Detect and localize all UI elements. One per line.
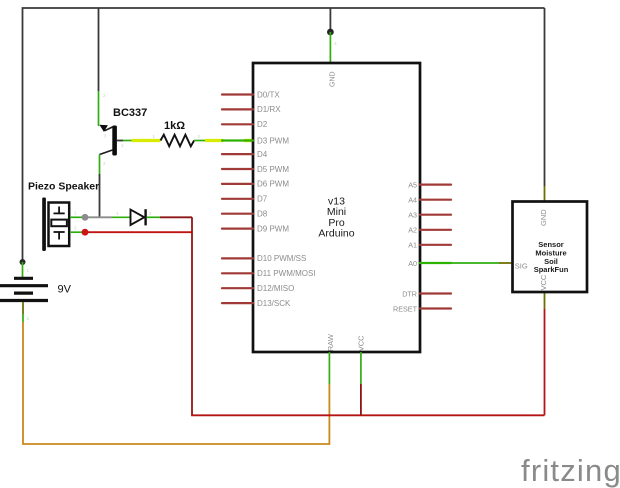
junction dot piezo pin2	[82, 229, 89, 236]
svg-text:D2: D2	[257, 120, 268, 129]
piezo speaker LS1	[42, 198, 69, 252]
pin stub Arduino VCC	[360, 352, 362, 384]
svg-text:DTR: DTR	[402, 289, 417, 298]
pin stub piezo pin2	[70, 231, 83, 233]
pin A2	[420, 229, 451, 231]
pin D9	[222, 228, 253, 230]
svg-text:D5 PWM: D5 PWM	[257, 165, 289, 174]
pin A1	[420, 244, 451, 246]
pin D11	[222, 272, 253, 274]
wire red bottom horizontal VCC net	[191, 414, 544, 416]
wire red piezo pin2	[85, 231, 192, 233]
pin D10	[222, 257, 253, 259]
wire sensor GND drop from rail	[544, 8, 546, 186]
svg-text:Piezo Speaker: Piezo Speaker	[28, 181, 99, 193]
pin DTR	[420, 292, 451, 294]
wire transistor collector down to piezo node	[99, 155, 101, 175]
pin A5	[420, 184, 451, 186]
Arduino right pins	[420, 185, 451, 309]
svg-text:RESET: RESET	[393, 304, 418, 313]
speaker cone bar	[42, 198, 46, 252]
svg-text:A1: A1	[408, 241, 417, 250]
svg-text:Arduino: Arduino	[318, 228, 354, 240]
svg-text:VCC: VCC	[539, 274, 548, 290]
pin stub battery plus	[22, 262, 24, 277]
pin D5	[222, 168, 253, 170]
pin stub piezo pin1	[70, 216, 83, 218]
svg-text:D10 PWM/SS: D10 PWM/SS	[257, 254, 306, 263]
svg-text:BC337: BC337	[113, 107, 147, 119]
svg-text:GND: GND	[539, 209, 548, 226]
bottom electrode	[54, 231, 65, 233]
wire green to diode anode	[112, 216, 131, 218]
pin D8	[222, 213, 253, 215]
svg-text:RAW: RAW	[326, 333, 335, 351]
svg-text:fritzing: fritzing	[521, 453, 620, 488]
Arduino title text	[318, 196, 354, 240]
wire red up to sensor VCC	[544, 309, 546, 415]
resistor R1 1k	[161, 135, 195, 147]
wire diode cathode	[147, 216, 161, 218]
wire base to resistor	[117, 140, 123, 142]
pin A3	[420, 214, 451, 216]
emitter arrowhead	[99, 125, 108, 132]
pin stub Arduino GND green	[329, 32, 331, 63]
pin D12	[222, 287, 253, 289]
pin A0 green	[420, 262, 451, 264]
junction dot battery plus	[20, 259, 26, 265]
svg-text:D3 PWM: D3 PWM	[257, 136, 289, 145]
wire collector drop from rail	[98, 8, 100, 91]
svg-text:SparkFun: SparkFun	[534, 265, 569, 274]
wire orange battery minus to RAW	[23, 322, 329, 444]
top electrode	[58, 207, 60, 214]
junction dot piezo pin1	[82, 214, 89, 221]
wire VCC down to red net	[360, 384, 362, 415]
svg-text:9V: 9V	[58, 284, 72, 296]
svg-text:A0: A0	[408, 259, 417, 268]
pin D2	[222, 123, 253, 125]
svg-text:D8: D8	[257, 210, 268, 219]
svg-text:A3: A3	[408, 211, 417, 220]
pin D13	[222, 302, 253, 304]
svg-text:SIG: SIG	[515, 261, 528, 270]
pin D4	[222, 153, 253, 155]
wire resistor to D3	[194, 140, 205, 142]
svg-text:D11 PWM/MOSI: D11 PWM/MOSI	[257, 269, 316, 278]
svg-text:1kΩ: 1kΩ	[164, 120, 185, 132]
crystal rect	[51, 220, 67, 227]
svg-text:D12/MISO: D12/MISO	[257, 284, 294, 293]
pin stub Arduino RAW	[328, 352, 330, 384]
svg-text:A5: A5	[408, 180, 417, 189]
wire Arduino GND to rail	[329, 8, 331, 32]
sensor U2 box	[513, 202, 588, 293]
sensor title text	[534, 240, 569, 274]
svg-text:GND: GND	[329, 71, 336, 87]
svg-text:VCC: VCC	[357, 335, 366, 351]
pin stub sensor GND	[544, 186, 546, 202]
pin D3 green	[222, 139, 253, 141]
body rectangle	[49, 203, 70, 247]
Arduino left pin labels	[257, 90, 316, 308]
Arduino U1 box	[253, 63, 420, 352]
battery BAT1 9V	[0, 278, 48, 300]
diode D1	[131, 209, 146, 225]
wire red down to VCC net	[191, 217, 193, 415]
pin D0/TX	[222, 93, 253, 95]
pin RESET	[420, 307, 451, 309]
tiny pin number marks	[27, 41, 338, 321]
junction dot GND	[327, 29, 334, 36]
wire top GND rail	[23, 8, 545, 262]
transistor Q1 BC337	[99, 125, 117, 156]
wire A0 to sensor SIG	[420, 262, 499, 264]
svg-text:D6 PWM: D6 PWM	[257, 180, 289, 189]
collector diagonal	[100, 150, 113, 155]
emitter diagonal	[105, 127, 114, 131]
pin stub battery minus	[22, 302, 24, 314]
svg-text:D9 PWM: D9 PWM	[257, 224, 289, 233]
svg-text:D1/RX: D1/RX	[257, 105, 281, 114]
Arduino right pin labels	[393, 180, 418, 313]
svg-text:D13/SCK: D13/SCK	[257, 299, 291, 308]
pin stub sensor VCC	[544, 292, 546, 309]
svg-text:D4: D4	[257, 150, 268, 159]
wire green stub transistor top	[98, 91, 100, 126]
pin stub sensor SIG	[499, 262, 513, 264]
svg-text:A2: A2	[408, 226, 417, 235]
pin D7	[222, 198, 253, 200]
pin A4	[420, 199, 451, 201]
svg-text:D7: D7	[257, 195, 268, 204]
svg-text:A4: A4	[408, 196, 417, 205]
base bar	[112, 126, 117, 156]
pin D6	[222, 183, 253, 185]
svg-text:D0/TX: D0/TX	[257, 90, 280, 99]
wire gray piezo pin1 to diode	[85, 216, 112, 218]
Arduino left pins	[222, 95, 253, 304]
pin D1/RX	[222, 108, 253, 110]
